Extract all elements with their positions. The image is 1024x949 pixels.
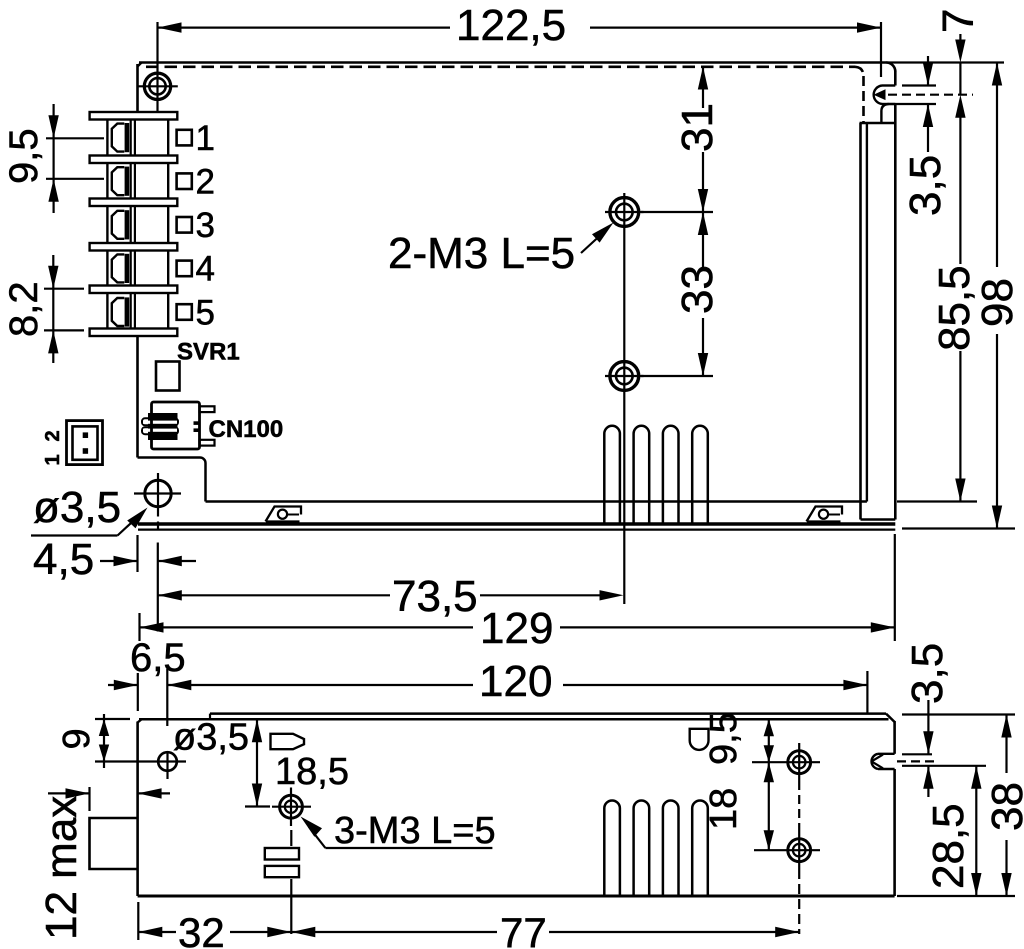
case bottom outer line (138, 528, 895, 530)
svg-text:98: 98 (973, 278, 1022, 327)
terminal bar 1 (90, 112, 178, 120)
terminal clamp 4 (112, 254, 125, 282)
svg-text:ø3,5: ø3,5 (33, 483, 121, 532)
svg-text:9,5: 9,5 (2, 128, 46, 184)
svg-text:32: 32 (178, 909, 225, 949)
svg-text:122,5: 122,5 (456, 1, 566, 50)
right plate top cap (860, 122, 897, 125)
svg-text:33: 33 (673, 265, 722, 314)
svg-text:CN100: CN100 (209, 416, 284, 443)
terminal clamp 1 (112, 124, 125, 152)
top-right corner chamfer (886, 714, 895, 722)
svg-text:5: 5 (196, 293, 215, 332)
case inner bottom line (206, 500, 867, 503)
svg-text:73,5: 73,5 (392, 572, 478, 621)
extension line for 122,5 / 129 right (880, 22, 882, 77)
side notch dashed centerline (888, 94, 973, 96)
dashed inner top edge (146, 66, 855, 69)
case right edge upper (893, 721, 896, 754)
svg-text:3,5: 3,5 (903, 643, 952, 704)
case right edge lower segment / plate right edge (894, 104, 897, 520)
terminal clamp 5 (112, 298, 125, 326)
mounting hole top-left (144, 73, 170, 99)
side notch top line (882, 84, 895, 86)
case left edge (136, 722, 139, 897)
svg-text:2: 2 (42, 430, 64, 441)
terminal bar 2 (90, 156, 178, 164)
svg-text:3: 3 (196, 206, 215, 245)
top-left corner chamfer (bottom view) (138, 719, 142, 722)
right plate outer-left edge (859, 123, 862, 520)
terminal clamp 3 (112, 211, 125, 239)
case right edge upper segment (894, 71, 897, 86)
terminal bar 5 (90, 286, 178, 294)
svg-text:9: 9 (56, 728, 98, 749)
right plate bottom cap (861, 518, 896, 521)
terminal bar 3 (90, 199, 178, 207)
side notch arrow mark (872, 755, 884, 769)
notch-to-plate connector (881, 104, 888, 123)
svg-text:18,5: 18,5 (275, 751, 349, 793)
svg-text:3-M3 L=5: 3-M3 L=5 (334, 810, 496, 852)
terminal pin square 1 (177, 130, 192, 146)
svg-text:3,5: 3,5 (901, 155, 950, 216)
terminal pin square 3 (177, 217, 192, 233)
svg-text:1: 1 (196, 119, 215, 158)
side notch top line (878, 753, 895, 755)
svg-text:1: 1 (42, 454, 64, 465)
side notch dashed centerline (897, 760, 936, 762)
case interior step below CN100 (138, 458, 206, 502)
case right edge lower (893, 769, 896, 896)
svg-text:2-M3 L=5: 2-M3 L=5 (388, 229, 575, 278)
svg-text:77: 77 (500, 909, 547, 949)
svg-text:12 max: 12 max (37, 796, 86, 940)
svg-text:2: 2 (196, 163, 215, 202)
side notch arrow mark (874, 89, 886, 100)
svg-text:4: 4 (196, 250, 215, 289)
svg-text:31: 31 (673, 103, 722, 152)
svg-text:8,2: 8,2 (2, 281, 46, 337)
case bottom edge (138, 895, 895, 898)
svg-text:SVR1: SVR1 (177, 339, 240, 366)
right plate inner-left edge (866, 123, 868, 502)
cover seam step (209, 714, 211, 720)
case left edge upper segment (136, 64, 139, 112)
side notch bottom line (882, 103, 895, 105)
dashed inner right vertical (862, 76, 865, 123)
terminal pin square 4 (177, 261, 192, 277)
terminal bar 6 (90, 329, 178, 337)
svg-text:129: 129 (480, 604, 553, 653)
svg-text:6,5: 6,5 (130, 636, 186, 680)
side notch bottom line (878, 768, 895, 770)
svg-text:120: 120 (479, 657, 552, 706)
svg-text:38: 38 (983, 782, 1024, 831)
case top edge upper line (210, 712, 886, 715)
top-left corner chamfer (138, 63, 142, 67)
terminal pin square 5 (177, 304, 192, 320)
dashed inner corner (855, 67, 864, 76)
svg-text:85,5: 85,5 (930, 265, 979, 351)
terminal bar 4 (90, 243, 178, 251)
case top edge lower line (139, 718, 889, 721)
svg-text:18: 18 (703, 788, 745, 830)
svg-text:4,5: 4,5 (33, 535, 94, 584)
svg-text:7: 7 (934, 9, 983, 33)
terminal body verticals (106, 117, 108, 330)
svg-text:ø3,5: ø3,5 (173, 717, 249, 759)
terminal pin square 2 (177, 173, 192, 189)
side notch left cap (872, 754, 878, 769)
case bottom edge (thick) (138, 522, 895, 525)
case left edge lower segment (136, 337, 139, 458)
terminal clamp 2 (112, 167, 125, 195)
svg-text:28,5: 28,5 (924, 803, 973, 889)
top-right corner arc (886, 62, 895, 71)
case top edge with extension to right (139, 61, 886, 64)
svg-text:9,5: 9,5 (703, 712, 745, 765)
side notch left round cap (874, 86, 882, 105)
